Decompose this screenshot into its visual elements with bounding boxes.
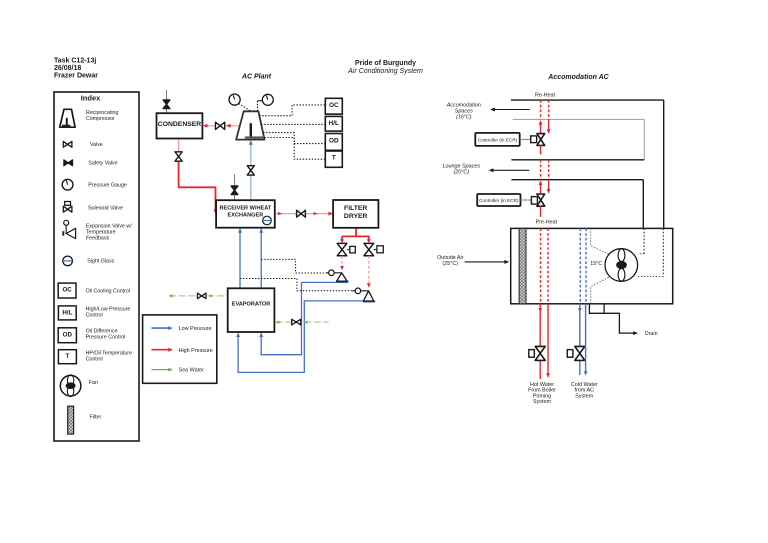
controller box 2 (in ECR) <box>477 194 520 206</box>
svg-text:Pre-Heat: Pre-Heat <box>536 219 558 225</box>
lounge duct bottom line <box>511 179 643 181</box>
svg-text:Reciprocating: Reciprocating <box>86 110 118 116</box>
wire evaporator riser 1 to receiver <box>239 229 241 289</box>
gauge PG2 sensing line <box>258 100 263 102</box>
temperature feedback line TX2 (dotted) <box>240 279 352 291</box>
svg-text:(20°C): (20°C) <box>453 169 469 175</box>
svg-text:Sight Glass: Sight Glass <box>87 258 114 264</box>
svg-text:Pressure Control: Pressure Control <box>86 334 126 340</box>
compressor (reciprocating) <box>236 111 264 139</box>
svg-text:Feedback: Feedback <box>86 235 110 241</box>
re-heat coil hot water lines (dashed) <box>540 100 542 119</box>
svg-text:26/08/18: 26/08/18 <box>54 65 81 72</box>
valve V3 suction line <box>247 166 254 175</box>
receiver w/heat exchanger <box>216 200 275 228</box>
AHU filter element (hatched) <box>519 228 526 303</box>
condenser <box>157 113 203 138</box>
svg-text:Control: Control <box>86 312 103 318</box>
index icon H/L box <box>58 306 76 320</box>
svg-text:System: System <box>575 393 593 399</box>
svg-text:System: System <box>533 399 551 405</box>
control line compressor to T (dotted) <box>264 138 325 160</box>
valve V4 filter dryer inlet <box>297 210 306 217</box>
svg-text:CONDENSER: CONDENSER <box>158 121 202 128</box>
condensate tray <box>589 304 604 314</box>
index icon reciprocating compressor <box>60 109 75 127</box>
svg-text:Safety Valve: Safety Valve <box>88 161 117 167</box>
svg-text:FILTER: FILTER <box>344 205 367 212</box>
wire evaporator riser 2 to receiver <box>260 229 262 289</box>
wire suction receiver to compressor (low pressure) <box>250 175 252 200</box>
svg-text:T: T <box>66 353 70 360</box>
legend box <box>143 315 217 383</box>
evaporator <box>228 288 275 332</box>
svg-text:Valve: Valve <box>90 142 103 148</box>
arrow to lounge spaces <box>492 169 529 171</box>
control line compressor to OD (dotted) <box>263 133 325 144</box>
controller 2 link line <box>521 199 532 201</box>
temperature feedback line TX1 (dotted) <box>261 259 326 273</box>
duct riser lounge to AHU <box>642 180 644 229</box>
svg-text:Pride of Burgundy: Pride of Burgundy <box>355 60 416 67</box>
fan intake guide (dotted) <box>591 228 609 254</box>
wire TX1 outlet to evaporator (low pressure) <box>261 282 348 354</box>
control box H/L <box>325 116 342 131</box>
legend high pressure <box>152 349 170 351</box>
valve V6 sea water inlet <box>292 319 301 325</box>
fan discharge duct continuation (dotted) <box>643 228 645 253</box>
valve V2 condenser outlet <box>175 152 182 161</box>
cooling coil lines inside AHU (blue dashed) <box>579 228 581 303</box>
control box T <box>325 151 342 167</box>
controller box 1 (in ECR) <box>475 133 519 146</box>
wire receiver to filter dryer (high pressure) <box>275 213 331 215</box>
safety valve SV2 receiver <box>231 186 238 195</box>
svg-text:Oil Cooling Control: Oil Cooling Control <box>86 288 130 294</box>
svg-text:Filter: Filter <box>90 414 102 420</box>
valve V7 hot water <box>535 346 545 360</box>
index icon fan <box>60 375 81 396</box>
svg-text:T: T <box>332 155 336 162</box>
pressure gauge PG1 <box>229 94 240 105</box>
svg-text:AC Plant: AC Plant <box>241 74 272 81</box>
gray relief line above condenser <box>166 90 168 113</box>
svg-text:Control: Control <box>86 356 103 362</box>
legend low pressure <box>152 327 170 329</box>
svg-text:Drain: Drain <box>645 331 658 337</box>
svg-text:Fan: Fan <box>89 380 98 386</box>
svg-text:(16°C): (16°C) <box>456 115 472 121</box>
lounge duct top line <box>511 159 644 161</box>
sea water inlet line (right of evaporator) <box>275 321 328 323</box>
index icon sight glass <box>63 256 73 266</box>
re-heat supply riser with up arrow <box>540 124 542 134</box>
index icon valve <box>63 141 72 147</box>
index icon OD box <box>58 328 76 343</box>
svg-text:OD: OD <box>329 137 339 144</box>
legend sea water <box>152 369 170 371</box>
index icon solenoid valve <box>65 202 71 206</box>
expansion valve TX2 <box>352 290 368 292</box>
svg-text:Pressure Gauge: Pressure Gauge <box>88 183 127 189</box>
svg-text:15°C: 15°C <box>590 261 602 267</box>
sight glass SG1 on receiver <box>263 216 272 225</box>
control box OC <box>325 98 342 114</box>
sea water overboard line (left of evaporator) <box>169 295 228 297</box>
svg-text:OC: OC <box>329 102 339 109</box>
wire below SOL3 <box>540 145 542 154</box>
wire condenser liquid out (high pressure) <box>178 139 180 153</box>
control line compressor to H/L (dotted) <box>261 123 325 125</box>
svg-text:DRYER: DRYER <box>344 213 368 220</box>
svg-text:High Pressure: High Pressure <box>179 348 213 354</box>
svg-text:Controller (in ECR): Controller (in ECR) <box>479 198 519 203</box>
svg-text:Accomodation AC: Accomodation AC <box>547 74 609 81</box>
svg-text:Sea Water: Sea Water <box>179 368 204 374</box>
index panel border <box>54 92 139 441</box>
lounge supply riser with up arrow <box>540 185 542 194</box>
index icon OC box <box>58 283 76 298</box>
duct riser right (supply) <box>663 100 665 228</box>
wire filter dryer to solenoid branches <box>355 228 357 237</box>
svg-text:Compressor: Compressor <box>86 116 115 122</box>
index icon filter <box>68 406 74 434</box>
controller 1 link line <box>520 138 531 140</box>
hot water supply line (left) <box>539 304 541 347</box>
svg-text:Re-Heat: Re-Heat <box>535 93 556 99</box>
solenoid valve SOL3 re-heat <box>531 136 537 143</box>
control line compressor to OC (dotted) <box>259 105 325 116</box>
drain line <box>604 313 635 333</box>
svg-text:EVAPORATOR: EVAPORATOR <box>232 302 271 308</box>
svg-text:Controller (in ECR): Controller (in ECR) <box>478 137 518 142</box>
svg-text:H/L: H/L <box>62 309 72 316</box>
hot water return line (right) <box>547 304 549 374</box>
wire below SOL4 <box>540 206 542 217</box>
index icon expansion valve w/ temperature feedback <box>64 220 69 225</box>
solenoid valve SOL4 pre-heat <box>531 197 537 205</box>
svg-text:H/L: H/L <box>329 120 339 127</box>
svg-text:EXCHANGER: EXCHANGER <box>228 212 264 218</box>
arrow outside air into AHU <box>465 261 506 263</box>
svg-text:Air Conditioning System: Air Conditioning System <box>347 68 423 75</box>
lounge return stub with down arrow <box>548 180 550 190</box>
expansion valve TX1 <box>326 272 342 274</box>
control box OD <box>325 134 342 151</box>
svg-text:RECEIVER W/HEAT: RECEIVER W/HEAT <box>220 205 272 211</box>
solenoid valve SOL1 <box>337 243 347 255</box>
valve V8 cold water <box>575 346 585 360</box>
cold water supply line (left) <box>579 304 581 347</box>
air handling unit box <box>511 228 673 303</box>
valve V5 sea water outlet <box>197 293 206 298</box>
svg-text:OD: OD <box>63 331 73 338</box>
index icon pressure gauge <box>62 179 73 190</box>
pre-heat coil lines inside AHU (red dashed) <box>540 228 542 303</box>
wire hot gas discharge compressor to condenser <box>203 125 240 127</box>
solenoid valve SOL2 <box>364 243 374 255</box>
svg-text:(25°C): (25°C) <box>442 261 458 267</box>
re-heat return stub with down arrow <box>548 119 550 130</box>
accommodation duct top line <box>511 99 664 101</box>
valve V1 discharge line <box>215 122 224 129</box>
fan F1 <box>605 249 638 282</box>
safety valve SV1 condenser <box>163 100 170 109</box>
index icon safety valve <box>64 160 73 166</box>
wire SOL1 to expansion valve TX1 <box>341 256 343 266</box>
filter dryer <box>333 200 378 228</box>
return duct continuation (dotted) <box>662 228 664 276</box>
index icon T box <box>58 350 76 364</box>
svg-text:Solenoid Valve: Solenoid Valve <box>88 205 123 211</box>
svg-text:Index: Index <box>81 94 101 103</box>
lounge coil hot water lines (dashed) <box>540 160 542 180</box>
svg-text:Frazer Dewar: Frazer Dewar <box>54 73 98 80</box>
svg-text:Task C12-13j: Task C12-13j <box>54 58 96 65</box>
pressure gauge PG2 <box>262 94 273 105</box>
accommodation duct bottom line (gray) <box>513 118 645 120</box>
svg-text:Low Pressure: Low Pressure <box>179 326 212 332</box>
cold water return line (right) <box>585 304 587 372</box>
wire SOL2 to expansion valve TX2 <box>368 256 370 284</box>
gray relief line above receiver <box>234 174 236 200</box>
gauge PG1 sensing line (dotted) <box>239 104 251 111</box>
wire TX2 outlet to evaporator (low pressure) <box>238 301 374 373</box>
svg-text:OC: OC <box>62 286 72 293</box>
arrow to accommodation spaces <box>494 109 530 111</box>
